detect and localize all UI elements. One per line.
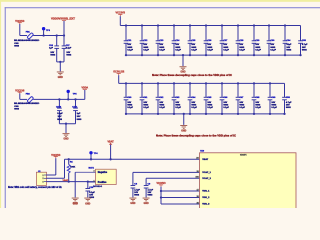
svg-text:36: 36 <box>197 202 199 204</box>
svg-text:VCAP_2: VCAP_2 <box>202 177 211 180</box>
svg-text:VDD_3: VDD_3 <box>202 204 210 206</box>
FB2 value C0G <box>14 106 19 108</box>
svg-text:0.1µF: 0.1µF <box>191 107 197 109</box>
svg-text:0.1µF: 0.1µF <box>66 48 72 50</box>
wire VDD_3 <box>161 203 200 205</box>
junction TP5 on rail <box>67 98 69 100</box>
svg-text:GND: GND <box>73 204 78 206</box>
U10 pin VCAP_1 <box>197 171 212 174</box>
value C17 0603 <box>66 55 72 57</box>
FB1 value BLM18AG601SN1D <box>14 39 40 42</box>
label GND pair <box>73 204 91 206</box>
MCU U10 body <box>200 153 297 213</box>
svg-text:0.1µF: 0.1µF <box>270 49 276 51</box>
wire VCC1V8 down + rail to FB2 <box>20 94 27 100</box>
svg-text:100K: 100K <box>70 166 76 168</box>
svg-text:0.1µF: 0.1µF <box>127 107 133 109</box>
value C19 0.1uF <box>89 192 95 194</box>
junction C101 top <box>74 98 76 100</box>
value C9 16V <box>148 192 152 194</box>
value C9 4.7uF <box>148 189 154 192</box>
svg-text:0.1µF: 0.1µF <box>175 107 181 109</box>
svg-text:0603: 0603 <box>77 119 83 121</box>
value C16 1uF <box>49 48 53 50</box>
capacitor C26 (row1) <box>204 24 214 56</box>
value C100 3.3uF <box>57 113 63 115</box>
svg-text:1: 1 <box>94 180 95 182</box>
svg-text:GND: GND <box>144 203 149 205</box>
junction flag/C17 <box>63 34 65 36</box>
junction TP3 on rail <box>42 34 44 36</box>
svg-text:0.1µF: 0.1µF <box>239 107 245 109</box>
svg-text:0603: 0603 <box>286 49 292 51</box>
svg-text:0603: 0603 <box>286 107 292 109</box>
designator R4 <box>70 161 74 164</box>
wire row2 gnd drop <box>183 114 185 125</box>
battery holder BAT1 body <box>96 169 117 184</box>
svg-text:GD32F4: GD32F4 <box>240 154 247 157</box>
FB1 value C0G <box>14 43 19 45</box>
ferrite bead FB2 <box>27 96 34 103</box>
svg-text:4.7µF: 4.7µF <box>286 101 292 104</box>
value C17 0.1uF <box>66 48 72 50</box>
capacitor C22 (row1) <box>140 24 150 56</box>
capacitor C9 <box>144 186 149 198</box>
FB2 value 0603 <box>14 109 20 111</box>
capacitor C100 <box>57 99 62 123</box>
power port VDD3V3USB_EXT <box>51 19 76 21</box>
wire negative down <box>74 172 76 197</box>
value C16 16V <box>50 52 54 54</box>
svg-text:4.7µF: 4.7µF <box>148 189 154 192</box>
capacitor C19 <box>85 182 90 198</box>
test point TP4 <box>89 151 98 155</box>
svg-text:3: 3 <box>42 181 43 183</box>
value C17 16V <box>66 52 70 54</box>
value C19 16V <box>89 194 93 196</box>
ground row1 <box>180 66 187 73</box>
svg-text:2: 2 <box>42 178 43 180</box>
wire VCC1V8_DDR row2 down <box>118 75 120 83</box>
wire VCAP_2 run <box>146 178 199 185</box>
capacitor C42 (row2) <box>156 82 166 115</box>
svg-text:0603: 0603 <box>50 55 56 57</box>
capacitor C44 (row2) <box>188 82 198 115</box>
designator J2 <box>38 171 41 173</box>
ground battery negative <box>72 198 79 205</box>
capacitor C8 <box>131 186 136 198</box>
value C9 0603 <box>148 195 154 197</box>
svg-text:16V: 16V <box>58 116 62 118</box>
svg-text:0.1µF: 0.1µF <box>175 49 181 51</box>
ground C8 <box>129 198 136 205</box>
junction VDD_1 <box>160 190 162 192</box>
wire VCC3V3 row1 down <box>119 16 121 25</box>
wire VBAT rail <box>65 158 200 160</box>
note row1 decoupling <box>152 74 232 77</box>
value C101 16V <box>77 116 81 118</box>
svg-text:BAT1: BAT1 <box>89 166 95 169</box>
wire VCC3V3 down + rail to FB1 <box>20 24 27 36</box>
FB2 value BLM18AG601SN1D <box>14 102 40 105</box>
wire FB1 to caps rail <box>33 35 64 37</box>
power port VCC3V3 (VDD pins) <box>156 183 166 186</box>
BAT1 text Negative <box>98 171 108 174</box>
svg-text:0.1µF: 0.1µF <box>239 49 245 51</box>
svg-text:VBAT: VBAT <box>202 158 208 161</box>
svg-text:3.3µF: 3.3µF <box>57 113 63 115</box>
junction R4 bottom <box>68 180 70 182</box>
ferrite bead FB1 <box>27 33 34 40</box>
wire R4 bottom lead <box>68 173 70 182</box>
capacitor C40 (row2) <box>124 82 134 115</box>
label C17 <box>66 45 71 47</box>
sheet frame left border <box>5 7 6 208</box>
svg-text:2: 2 <box>94 171 95 173</box>
power port VCC3V3 (battery) <box>51 155 61 158</box>
svg-text:GND: GND <box>64 139 69 141</box>
wire caps bottom join (block1) <box>57 61 64 63</box>
yellow page edge left <box>0 0 1 208</box>
yellow page edge top <box>0 0 320 2</box>
svg-text:16V: 16V <box>77 116 81 118</box>
wire VCAP_1 run <box>133 172 200 185</box>
value C100 16V <box>58 116 62 118</box>
wire TP3 stub <box>43 30 45 35</box>
svg-text:Negative: Negative <box>98 171 108 174</box>
value C19 0603 <box>89 197 95 199</box>
junction row1 gnd tap <box>182 54 184 56</box>
capacitor C27 (row1) <box>220 24 230 56</box>
resistor R4 <box>67 165 70 173</box>
label C101 <box>72 107 78 109</box>
wire gnd drop block2 <box>65 124 67 133</box>
capacitor C25 (row1) <box>188 24 198 56</box>
svg-text:0.1µF: 0.1µF <box>159 107 165 109</box>
wire R4 top lead <box>68 159 70 164</box>
capacitor C34 (row1) <box>283 24 292 56</box>
wire VDD3V3USB_EXT down <box>63 21 65 36</box>
note coin cell <box>8 186 62 189</box>
J2 pin 2 <box>42 178 46 180</box>
svg-text:0.1µF: 0.1µF <box>159 49 165 51</box>
BAT1 footprint BAT-HLD-1 <box>93 185 102 188</box>
capacitor C49 (row2) <box>268 82 278 115</box>
svg-text:GND: GND <box>58 77 63 79</box>
power port VDDA (block2 end) <box>81 87 88 90</box>
junction TP4 on rail <box>90 158 92 160</box>
wire VBAT down <box>110 145 112 160</box>
capacitor C21 (row1) <box>124 24 134 56</box>
svg-text:0603: 0603 <box>134 195 140 197</box>
power port VCC3V3 (block1) <box>15 21 25 25</box>
capacitor C50 (row2) <box>282 83 292 115</box>
U10 pin VDD_1 <box>197 189 211 192</box>
svg-text:0.1µF: 0.1µF <box>223 107 229 109</box>
wire pin3 to battery positive <box>46 181 95 183</box>
svg-text:VBAT: VBAT <box>108 140 115 143</box>
value C101 1uF <box>77 113 81 115</box>
net label VBAT (pin3) <box>63 179 69 182</box>
J2 pin 1 <box>42 175 46 177</box>
capacitor C48 (row2) <box>252 82 262 115</box>
capacitor C23 (row1) <box>156 24 166 56</box>
wire row2 top bus <box>119 82 285 84</box>
designator FB1 <box>26 31 31 33</box>
label C16 <box>49 45 54 47</box>
BAT1 pin Negative <box>75 171 95 173</box>
capacitor C17 <box>62 36 67 62</box>
junction VBAT on rail <box>109 158 111 160</box>
svg-text:0603: 0603 <box>148 195 154 197</box>
svg-text:0.1µF: 0.1µF <box>207 49 213 51</box>
value C16 0603 <box>50 55 56 57</box>
svg-text:4.7µF: 4.7µF <box>134 189 140 192</box>
junction VDD_2 <box>160 196 162 198</box>
svg-text:0.1µF: 0.1µF <box>255 49 261 51</box>
capacitor C30 (row1) <box>267 24 277 56</box>
capacitor C41 (row2) <box>140 82 150 115</box>
wire row1 bottom bus <box>126 54 301 56</box>
value C101 0603 <box>77 119 83 121</box>
wire row1 gnd drop <box>182 55 184 66</box>
wire VDD_1 <box>161 190 200 192</box>
svg-text:0603: 0603 <box>302 49 308 51</box>
designator FB2 <box>26 93 31 95</box>
svg-text:VCAP_1: VCAP_1 <box>202 171 211 174</box>
svg-text:4.7µF: 4.7µF <box>302 43 308 46</box>
value C8 16V <box>134 192 138 194</box>
svg-text:VBAT: VBAT <box>63 179 69 182</box>
capacitor C16 <box>54 36 59 62</box>
U10 pin VDD_3 <box>197 202 211 205</box>
junction R4 top <box>68 158 70 160</box>
svg-text:Note: With coin cell battery,: Note: With coin cell battery, connect pi… <box>8 186 62 189</box>
label C100 <box>56 107 62 109</box>
svg-text:GND: GND <box>130 203 135 205</box>
wire row2 bottom bus <box>126 113 285 115</box>
capacitor C46 (row2) <box>220 82 230 115</box>
junction C100 top <box>58 98 60 100</box>
power port VCC1V8_DDR (row2) <box>113 72 124 76</box>
svg-text:0603: 0603 <box>14 46 20 48</box>
U10 pin VCAP_2 <box>196 177 212 180</box>
svg-text:0603: 0603 <box>66 55 72 57</box>
svg-text:Note: Place these decoupling c: Note: Place these decoupling caps close … <box>156 134 236 137</box>
svg-text:0.1µF: 0.1µF <box>143 107 149 109</box>
wire pin1 to VCC3V3 <box>46 158 55 175</box>
value C8 0603 <box>134 195 140 197</box>
svg-text:0.1µF: 0.1µF <box>191 49 197 51</box>
capacitor C101 <box>73 99 78 123</box>
J2 pin 3 <box>42 181 46 183</box>
U10 pin VBAT <box>196 157 208 161</box>
svg-text:0.1µF: 0.1µF <box>255 107 261 109</box>
svg-text:0.1µF: 0.1µF <box>207 107 213 109</box>
svg-text:GND: GND <box>85 204 90 206</box>
svg-text:1: 1 <box>42 175 43 177</box>
junction gnd tap block2 <box>65 123 67 125</box>
wire VDD_2 <box>161 197 200 199</box>
wire pin2 up to VBAT rail <box>46 159 64 178</box>
label C19 <box>89 187 94 189</box>
wire FB2 to rail end <box>33 98 85 100</box>
svg-text:C101: C101 <box>72 107 78 109</box>
BAT1 text Positive <box>98 181 107 184</box>
label C9 <box>148 184 152 186</box>
ground block2 <box>63 133 70 140</box>
capacitor C43 (row2) <box>172 82 182 115</box>
svg-text:BLM18AG601SN1D: BLM18AG601SN1D <box>14 39 40 42</box>
svg-text:0.1µF: 0.1µF <box>127 49 133 51</box>
capacitor C47 (row2) <box>236 82 246 115</box>
svg-text:106: 106 <box>196 177 199 179</box>
U10 pin VDD_2 <box>197 196 211 199</box>
svg-text:26: 26 <box>197 196 199 198</box>
power port VCC3V3 (row1) <box>116 13 126 17</box>
svg-text:VDD_2: VDD_2 <box>202 197 210 199</box>
ground C19 <box>84 198 91 202</box>
value R4 100K <box>70 166 76 168</box>
wire TP4 stub <box>90 154 92 159</box>
svg-text:17: 17 <box>197 189 199 191</box>
test point TP5 <box>67 90 78 96</box>
ground C9 <box>143 198 150 205</box>
ground row2 <box>180 125 187 132</box>
value C8 4.7uF <box>134 189 140 192</box>
note row2 decoupling <box>156 134 236 137</box>
power port VBAT <box>108 140 115 144</box>
capacitor C29 (row1) <box>252 24 262 56</box>
designator U10 <box>200 151 205 153</box>
svg-text:0.1µF: 0.1µF <box>223 49 229 51</box>
wire TP5 stub <box>67 93 69 100</box>
power port VCC1V8 (block2) <box>15 90 25 94</box>
ground block1 <box>57 72 64 79</box>
wire row1 top bus <box>120 25 300 27</box>
svg-text:VDDA: VDDA <box>81 87 88 90</box>
junction C19 tap <box>87 180 89 182</box>
junction row2 gnd tap <box>183 113 185 115</box>
svg-text:BLM18AG601SN1D: BLM18AG601SN1D <box>14 102 40 105</box>
svg-text:A6: A6 <box>196 157 198 160</box>
label C8 <box>134 184 138 186</box>
svg-text:Note: Place these decoupling c: Note: Place these decoupling caps close … <box>152 74 232 77</box>
wire VDDA down to rail <box>84 90 86 100</box>
capacitor C28 (row1) <box>236 24 246 56</box>
capacitor C35 (row1) <box>298 26 308 57</box>
value C100 0603 <box>57 119 63 121</box>
wire gnd drop block1 <box>59 62 61 71</box>
capacitor C45 (row2) <box>204 82 214 115</box>
sheet frame top border <box>5 7 320 8</box>
wire caps bottom join (block2) <box>59 123 75 125</box>
BAT1 pin Positive <box>88 180 96 182</box>
svg-text:0603: 0603 <box>57 119 63 121</box>
designator BAT1 <box>89 166 95 169</box>
svg-text:0.1µF: 0.1µF <box>143 49 149 51</box>
junction gnd tap block1 <box>59 61 61 63</box>
capacitor C24 (row1) <box>172 24 182 56</box>
svg-text:0.1µF: 0.1µF <box>271 107 277 109</box>
svg-text:30: 30 <box>197 171 199 173</box>
wire VCC3V3 VDD vertical <box>160 187 162 204</box>
svg-text:C100: C100 <box>56 107 62 109</box>
svg-text:BAT-HLD-1: BAT-HLD-1 <box>93 185 102 188</box>
svg-text:VDD_1: VDD_1 <box>202 191 210 193</box>
U10 part name <box>240 154 247 157</box>
svg-text:GND: GND <box>181 130 186 132</box>
connector J2 body <box>36 172 46 185</box>
junction C16 top <box>56 34 58 36</box>
FB1 value 0603 <box>14 46 20 48</box>
test point TP3 <box>42 27 51 32</box>
svg-text:0603: 0603 <box>14 109 20 111</box>
svg-text:Positive: Positive <box>98 181 107 184</box>
